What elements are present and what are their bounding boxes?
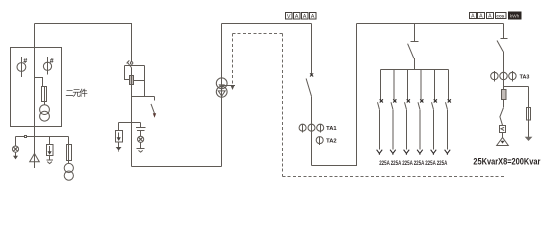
transformer T1 (two-winding) [216,78,227,97]
svg-text:V: V [287,14,291,20]
wire: box to terminal [502,133,504,138]
wire: LV cabinet bottom and return riser [312,24,357,166]
meter M2 (circle with line, #) [43,57,53,75]
current transformer TA2 [316,136,323,145]
svg-text:A: A [479,14,483,20]
meter M1 (circle with line, #) [17,57,27,77]
fuse FU4 (right arm) [527,87,531,121]
voltage transformer TV2 (two circles) [64,163,73,180]
svg-text:A: A [311,14,315,20]
voltage transformer TV (two circles) [40,105,50,121]
wire: jog from riser to PT fuse [35,78,43,87]
protector box [500,126,506,133]
wire: top trunk from metering riser to drop-out fuse [35,23,133,25]
meter box A4 [470,13,477,19]
svg-text:A: A [488,14,492,20]
svg-text:A: A [471,14,475,20]
live-line indicator (capacitor, lamp, ground) [136,123,146,153]
capacitor feeders x6 [377,70,451,155]
outgoing feeder drop [503,24,505,39]
wire: breaker to CTs [311,96,313,165]
capacitor bank feed drop [414,24,416,42]
indicator lamp HL (circle-X with arrow to ground) [12,137,18,160]
svg-text:kWh: kWh [510,14,520,20]
cable terminal (triangle on left riser) [30,154,40,162]
svg-text:二元件: 二元件 [65,88,87,98]
meter box A1 [294,13,301,20]
current transformer TA3 (three circles) [491,71,516,81]
capacitor bank bus [381,69,449,71]
wire: fuse to switch [503,100,505,108]
svg-text:225A: 225A [379,160,390,167]
ground arrow (right arm) [525,120,533,141]
svg-text:#: # [23,58,27,65]
breaker contact x [310,73,313,76]
wire: branch to arrester and lamp [119,122,141,124]
surge arrester F2 [116,123,123,152]
svg-text:225A: 225A [414,160,425,167]
wire: transformer riser [221,24,223,167]
meter box V [286,13,293,20]
svg-text:#: # [50,58,54,65]
svg-text:225A: 225A [402,160,413,167]
meter box A2 [302,13,309,20]
svg-text:225A: 225A [437,160,448,167]
svg-text:A: A [303,14,307,20]
wire: left main riser through metering cabinet [34,24,36,169]
cable terminal triangle with arrow [497,138,509,146]
breaker blade [306,79,311,97]
labels 225A x6 [379,160,448,167]
meter box A5 [478,13,485,19]
meter box A6 [487,13,494,19]
svg-text:225A: 225A [391,160,402,167]
dashed link: top horizontal [233,33,283,35]
meter box kWh (dark) [509,12,522,19]
LV breaker drop [311,24,313,75]
fuse link (small square on branch) [25,136,27,138]
svg-text:TA1: TA1 [326,126,337,132]
surge arrester F1 [47,137,54,164]
fuse FU2 (PT branch fuse) [67,137,72,164]
wire: trunk transformer to LV cabinet [222,23,312,25]
wire: bottom branch bus of metering unit [16,136,69,138]
wire: branch to disconnect [132,96,155,98]
dashed link: right vertical [282,34,284,177]
svg-text:cοs: cοs [496,13,504,18]
switch blade [500,108,504,125]
wire: transformer tap line [222,85,235,87]
svg-text:25KvarX8=200Kvar: 25KvarX8=200Kvar [473,156,540,166]
dashed link: bottom horizontal [283,176,506,178]
dashed link arrow to transformer [232,34,234,86]
cap feed switch (tick and blade) [408,42,419,70]
meter box cos [496,13,507,19]
disconnect switch (open, with arrow) [151,97,156,118]
svg-text:TA2: TA2 [326,138,337,144]
svg-text:225A: 225A [425,160,436,167]
wire: branch to right arm [504,86,529,88]
svg-text:TA3: TA3 [520,74,530,80]
drop-out fuse cutout (hinge circle, blade, fuse barrel, brackets) [125,60,145,166]
wire: drop to cutout fuse [131,24,133,62]
fuse FU (PT fuse in cabinet) [42,87,47,102]
wire: bottom run to transformer riser [132,166,222,168]
fuse FU3 [502,90,507,100]
metering cabinet box [11,48,62,127]
outgoing switch (tick and blade) [497,39,508,90]
wire: trunk to capacitor bank and outgoing [357,23,504,25]
wire: fuse to PT [44,87,46,105]
current transformer TA1 (three circles) [299,124,324,132]
svg-text:A: A [295,14,299,20]
meter box A3 [310,13,317,20]
